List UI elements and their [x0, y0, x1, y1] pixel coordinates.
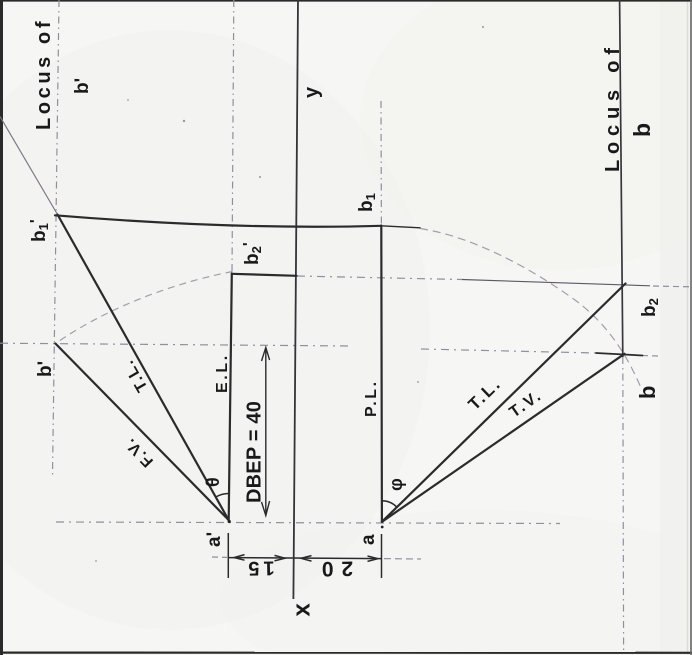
svg-text:a: a	[358, 534, 379, 545]
svg-text:x: x	[289, 603, 316, 617]
wire rotation arc left (b2' to b')	[56, 272, 233, 344]
arrowhead left end	[234, 555, 245, 561]
angle arc theta at a'	[216, 494, 229, 497]
wire level dash beyond b2	[653, 285, 690, 288]
svg-text:y: y	[301, 86, 323, 98]
scan speck	[127, 99, 129, 101]
wire E.L. (a' to b2')	[229, 274, 232, 520]
svg-text:φ: φ	[386, 478, 406, 491]
extension line below a	[381, 534, 383, 578]
svg-text:20: 20	[314, 557, 354, 581]
svg-text:b: b	[635, 386, 660, 399]
wire level dash right of b	[642, 355, 659, 358]
wire level line b2' to b2 (dash part)	[297, 276, 462, 280]
wire b2' horizontal stub to axis	[232, 274, 297, 276]
wire level line b2 (solid thin part)	[462, 280, 650, 286]
svg-text:Locus of: Locus of	[602, 42, 624, 172]
wire dimension dash right	[384, 558, 421, 560]
wire T.V. (a to b)	[382, 354, 625, 522]
wire locus of b' (vertical dash)	[53, 0, 60, 476]
arrowhead right end	[368, 556, 379, 561]
wire T.L. left (a' to b1')	[58, 215, 229, 521]
wire xy axis (vertical)	[293, 0, 298, 599]
wire locus of b lower dash	[622, 357, 625, 650]
wire T.L. thin extension beyond b1'	[0, 117, 58, 215]
scan speck	[482, 26, 484, 28]
svg-text:b: b	[629, 123, 655, 137]
arrowhead before axis	[275, 555, 286, 561]
wire b1-line overshoot	[381, 226, 420, 228]
svg-text:b': b'	[35, 361, 56, 377]
wire F.V. (a' to b')	[55, 344, 228, 521]
wire T.L. right (a to b2)	[382, 284, 626, 522]
extension line below a'	[227, 533, 229, 578]
scan speck	[95, 560, 97, 562]
scan speck	[259, 176, 261, 178]
svg-text:DBEP = 40: DBEP = 40	[244, 401, 266, 503]
main solid drawing lines	[55, 215, 643, 522]
svg-text:b': b'	[72, 78, 93, 94]
dimension line 15 / 20	[228, 533, 381, 578]
wire P.L. extension above b1	[380, 101, 382, 224]
svg-text:a': a'	[204, 532, 225, 547]
svg-text:E.L.: E.L.	[214, 353, 231, 393]
wire dimension dash left	[212, 556, 227, 558]
svg-text:P.L.: P.L.	[363, 379, 380, 417]
scan speck	[183, 120, 185, 122]
wire level line through b (right)	[421, 349, 596, 353]
wire level line through b' (left)	[0, 343, 352, 346]
wire tick through b	[596, 353, 643, 356]
arrowhead after axis	[301, 556, 312, 562]
dimension DBEP arrow line	[262, 348, 270, 516]
wire locus of b (solid upper)	[620, 0, 623, 357]
svg-text:θ: θ	[203, 477, 223, 487]
svg-text:Locus of: Locus of	[33, 18, 55, 130]
wire rotation arc right (b1 to b, overshoot)	[420, 229, 642, 390]
wire E.L. extension above b2'	[232, 0, 234, 272]
scan speck	[417, 381, 419, 383]
node a dot	[381, 526, 384, 529]
angle arc phi at a	[382, 501, 397, 507]
wire P.L. (a to b1)	[380, 226, 383, 522]
wire b1' to b1 line	[55, 215, 381, 226]
wire level line a' a (horizontal dash)	[56, 522, 560, 524]
svg-text:15: 15	[244, 557, 275, 580]
node a' dot	[228, 520, 231, 523]
